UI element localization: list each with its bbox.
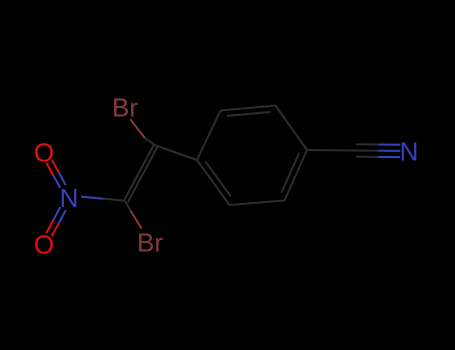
bond C2-Br (lower) — [125, 201, 130, 211]
benzene ring edge BR-BL — [230, 201, 285, 206]
bond C1-Br (upper) — [145, 138, 156, 146]
nitrile triple bond C#N — [356, 143, 378, 145]
svg-text:N: N — [60, 183, 79, 213]
nitro double bond N=O (lower) — [59, 210, 66, 223]
benzene ring edge TR-para — [276, 106, 308, 151]
benzene inner double-bond line (lower-right edge) — [282, 153, 300, 193]
svg-text:Br: Br — [137, 228, 163, 258]
bond ring(para)-nitrile C — [307, 149, 356, 152]
benzene ring edge ipso-TL — [197, 111, 221, 161]
benzene ring edge para-BR (outer of double) — [285, 150, 308, 201]
svg-text:N: N — [400, 136, 419, 166]
svg-text:O: O — [34, 137, 54, 167]
nitro double bond N=O (upper) — [52, 160, 59, 173]
benzene inner double-bond line (lower-left edge) — [205, 161, 231, 196]
bond C1-ring(ipso) — [156, 146, 197, 160]
svg-text:Br: Br — [112, 93, 138, 123]
benzene inner double-bond line (top edge) — [227, 112, 270, 116]
benzene ring edge TL-TR (outer of double) — [221, 106, 276, 111]
benzene ring edge BL-ipso (outer of double) — [197, 160, 230, 205]
svg-text:O: O — [34, 229, 54, 259]
vinyl double bond C1=C2 — [124, 144, 154, 200]
bond N-C2 (nitro to vinyl carbon) — [81, 197, 104, 199]
